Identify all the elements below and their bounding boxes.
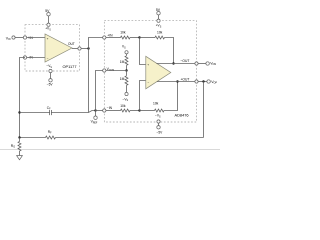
- node C junction (VREF/VOCM/-IN): [94, 109, 96, 111]
- pin +IN terminal of U1: [23, 36, 26, 39]
- resistor 1M lower: [125, 71, 128, 93]
- svg-text:−5V: −5V: [157, 130, 164, 134]
- wire -OUT to VON: [198, 63, 206, 65]
- node G junction (VOCM): [125, 69, 127, 71]
- wire CF row right: [51, 111, 95, 113]
- svg-text:−5V: −5V: [47, 82, 54, 86]
- wire op-amp tip to OUT terminal: [72, 48, 78, 50]
- wire node C to -IN terminal: [96, 110, 105, 112]
- resistor 10k top input: [121, 36, 130, 39]
- resistor 10k top feedback: [155, 36, 164, 39]
- svg-text:+OUT: +OUT: [181, 77, 190, 81]
- node VOP terminal: [207, 80, 210, 83]
- svg-text:10k: 10k: [120, 104, 126, 108]
- diff-amp U2 dashed box (AD8476): [104, 21, 196, 122]
- supply -5V terminal (U1): [49, 79, 52, 82]
- node D junction (RF/RG): [18, 136, 20, 138]
- svg-text:−: −: [47, 56, 49, 60]
- pin +VS terminal of U2: [157, 19, 160, 22]
- svg-text:+IN: +IN: [28, 36, 34, 40]
- node VREF terminal: [94, 116, 97, 119]
- wire CF row left: [20, 112, 50, 114]
- svg-text:−IN: −IN: [107, 106, 113, 110]
- pin +VS terminal of U1: [47, 23, 50, 26]
- wire node A down to CF row: [88, 49, 90, 113]
- pin +IN terminal of U2: [103, 36, 106, 39]
- wire node H to 10k fb and corner up to +OUT: [140, 82, 178, 111]
- wire OUT to node A: [81, 48, 87, 50]
- ground: [17, 156, 23, 160]
- pin VOCM terminal of U2: [103, 69, 106, 72]
- svg-text:+: +: [147, 62, 149, 66]
- supply -5V terminal (U2): [157, 126, 160, 129]
- pin -IN terminal of U1: [23, 56, 26, 59]
- wire -OUT row: [157, 63, 195, 65]
- wire node E to 10k fb and corner down to -OUT: [140, 38, 174, 64]
- wire +IN to 10k (U2 top): [106, 37, 121, 39]
- svg-text:+IN: +IN: [107, 34, 113, 38]
- supply 5V terminal (U2): [157, 12, 160, 15]
- resistor 10k bottom feedback: [155, 109, 164, 112]
- capacitor CF: [50, 110, 52, 115]
- svg-text:10k: 10k: [153, 101, 159, 105]
- node H junction (bottom summing): [138, 109, 140, 111]
- wire +OUT row: [157, 81, 195, 83]
- wire +IN to op-amp: [27, 37, 45, 39]
- svg-text:−: −: [148, 80, 150, 84]
- pin +OUT terminal of U2: [195, 80, 198, 83]
- pin -OUT terminal of U2: [195, 62, 198, 65]
- node F junction (-OUT fb tap): [172, 62, 174, 64]
- node A junction: [87, 47, 89, 49]
- wire VIN to +IN: [15, 37, 25, 39]
- wire node C up to VOCM: [96, 71, 103, 111]
- node J junction (outer fb tap): [202, 80, 204, 82]
- svg-text:1M: 1M: [120, 60, 125, 64]
- wire node A up to +IN row: [89, 38, 105, 49]
- svg-text:5V: 5V: [45, 9, 50, 13]
- wire -IN of U1 to left vertical: [20, 58, 26, 138]
- wire outer feedback VOP to RF: [203, 82, 205, 138]
- resistor 10k bottom input: [121, 109, 130, 112]
- wire 5V to +VS pin (U1): [48, 16, 50, 23]
- wire +OUT to VOP: [198, 81, 207, 83]
- svg-text:AD8476: AD8476: [175, 112, 189, 117]
- node I junction (+OUT fb tap): [176, 80, 178, 82]
- svg-text:−OUT: −OUT: [181, 59, 190, 63]
- svg-text:10k: 10k: [157, 30, 163, 34]
- wire -VS pin to -5V (U1): [50, 73, 52, 79]
- wire to node H: [130, 110, 140, 112]
- svg-text:OP1177: OP1177: [63, 64, 77, 69]
- resistor RF: [20, 136, 204, 139]
- wire to node E: [130, 37, 140, 39]
- wire 5V to +VS pin (U2): [158, 15, 160, 19]
- pin -VS terminal of U2: [157, 120, 160, 123]
- diff-amp U2 triangle: [146, 56, 171, 89]
- wire node H up to amp bottom input: [140, 81, 146, 111]
- svg-text:10k: 10k: [120, 30, 126, 34]
- node VIN terminal: [12, 36, 15, 39]
- supply 5V terminal (U1): [47, 13, 50, 16]
- node -VS terminal of 1M chain: [125, 92, 128, 95]
- wire VOCM to node G: [106, 70, 127, 72]
- wire node E down to amp top input: [140, 38, 146, 65]
- pin OUT terminal of U1: [78, 47, 81, 50]
- resistor RG: [18, 138, 21, 156]
- node E junction (top summing): [138, 36, 140, 38]
- node VS terminal of 1M chain: [125, 51, 128, 54]
- svg-text:OUT: OUT: [68, 42, 75, 46]
- wire -VS pin to -5V (U2): [158, 123, 160, 126]
- svg-text:1M: 1M: [120, 77, 125, 81]
- wire -IN to op-amp: [27, 57, 45, 59]
- pin -VS terminal of U1: [49, 69, 52, 72]
- separator rule: [0, 149, 220, 151]
- node B junction (CF tap): [18, 111, 20, 113]
- wire -IN to 10k (U2 bottom): [106, 110, 121, 112]
- resistor 1M upper: [125, 54, 128, 71]
- svg-text:RG: RG: [11, 144, 15, 149]
- node VON terminal: [206, 62, 209, 65]
- wire node C down to VREF: [95, 111, 97, 117]
- svg-text:+: +: [47, 36, 49, 40]
- op-amp U1 triangle: [45, 34, 72, 62]
- pin -IN terminal of U2: [103, 109, 106, 112]
- op-amp U1 dashed box (OP1177): [25, 25, 80, 71]
